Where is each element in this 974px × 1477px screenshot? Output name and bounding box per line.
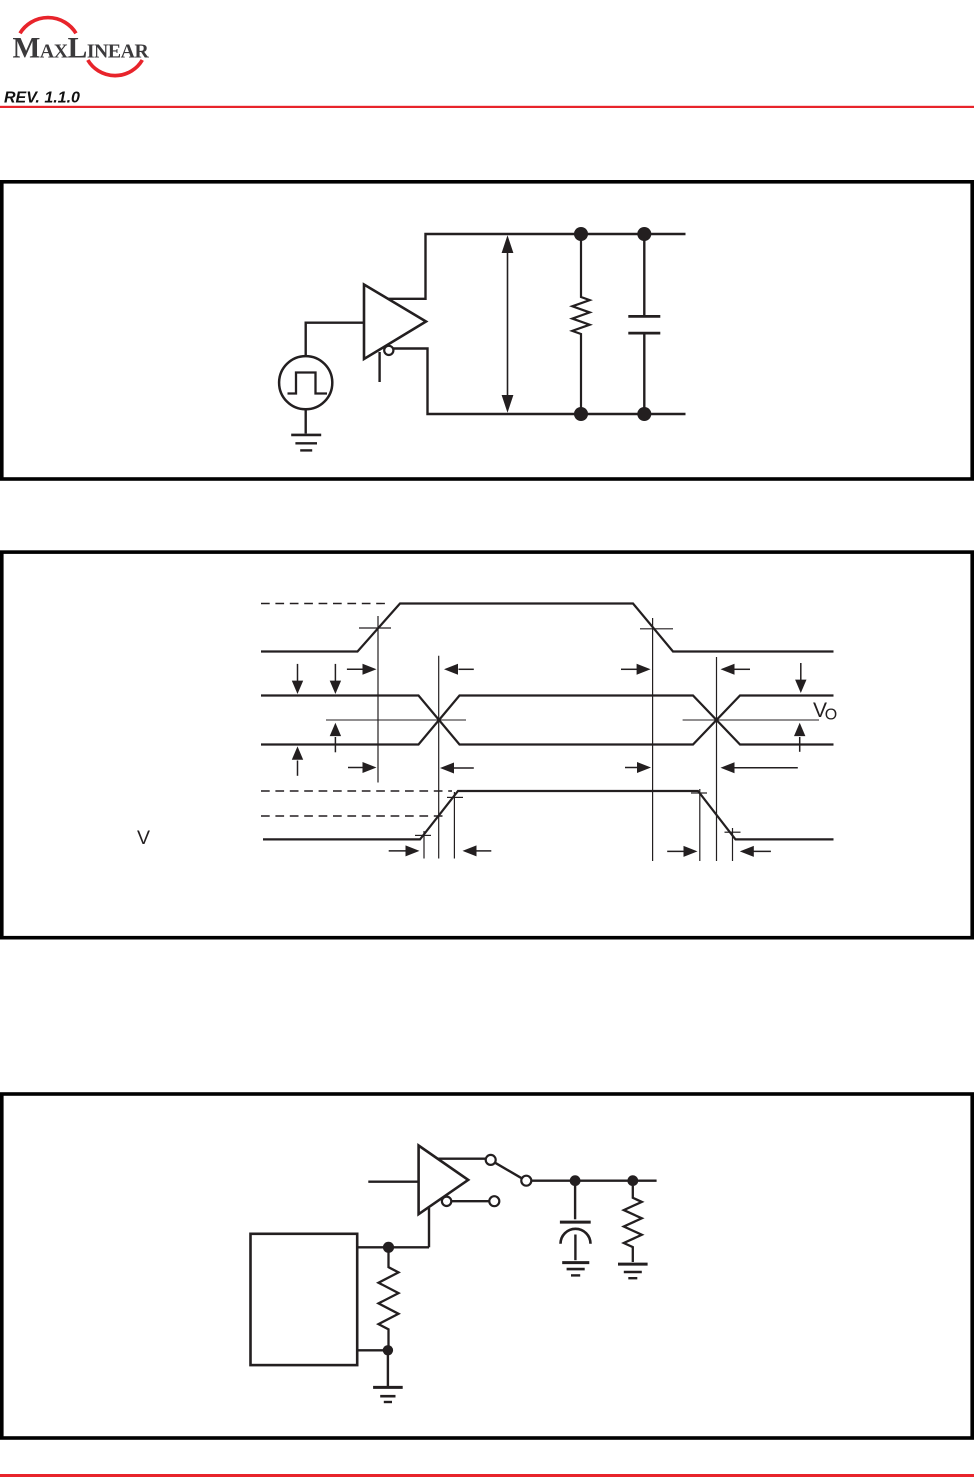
svg-text:REV. 1.1.0: REV. 1.1.0 [4, 90, 80, 107]
svg-text:MAXLINEAR: MAXLINEAR [13, 33, 150, 65]
svg-text:O: O [825, 707, 837, 724]
svg-text:V: V [137, 827, 150, 849]
